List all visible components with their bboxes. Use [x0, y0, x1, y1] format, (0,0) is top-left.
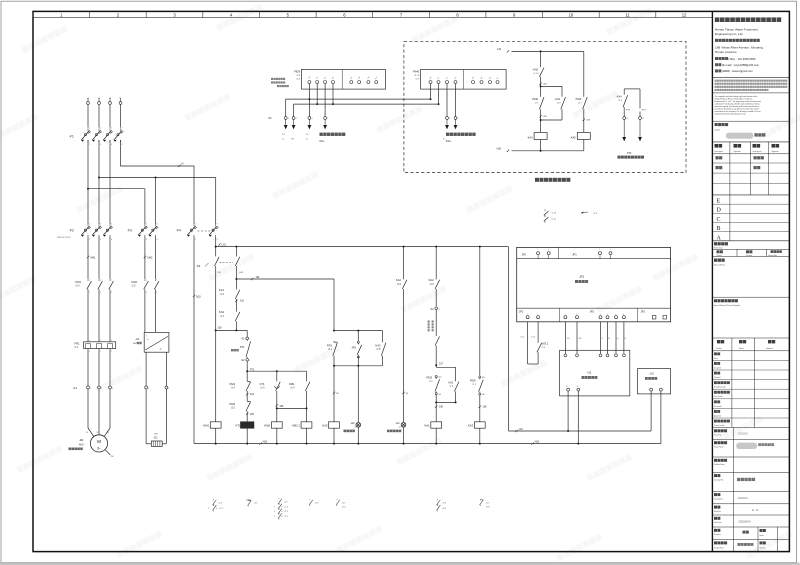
svg-text:2: 2 — [281, 506, 282, 508]
legend contact refs above P2 — [544, 210, 546, 211]
svg-text:M: M — [97, 439, 101, 444]
svg-text:FR1: FR1 — [327, 343, 333, 347]
terminal pair for G1 output — [145, 386, 148, 389]
svg-text:3~: 3~ — [97, 446, 101, 450]
auto restore signal contact — [435, 310, 437, 335]
wire N10 tail to U2 — [660, 391, 662, 444]
svg-text:KA-: KA- — [438, 393, 441, 396]
svg-text:1: 1 — [146, 279, 147, 281]
lamp H1 power indicator — [401, 423, 406, 428]
svg-text:Engineering Co.,Ltd.: Engineering Co.,Ltd. — [715, 32, 743, 36]
wire U1 supply to L10 — [567, 391, 569, 396]
svg-text:/1.6: /1.6 — [220, 293, 225, 296]
node L3 incoming terminal — [109, 102, 112, 105]
svg-text:3: 3 — [217, 223, 218, 225]
svg-text:-S2: -S2 — [241, 359, 245, 362]
wire U1 supply to N10 — [577, 391, 579, 396]
svg-text:1: 1 — [89, 223, 90, 225]
node junctions on L10 bus — [215, 246, 217, 248]
svg-text:/2.6: /2.6 — [397, 283, 402, 286]
svg-text:4: 4 — [296, 118, 297, 120]
svg-text:4: 4 — [288, 118, 289, 120]
svg-text:P629: P629 — [294, 70, 300, 73]
svg-text:Special Stamp: Special Stamp — [714, 264, 725, 267]
svg-text:A: A — [717, 235, 722, 241]
svg-text:Descript ion: Descript ion — [753, 150, 762, 153]
wire label KM1 riser — [87, 256, 89, 258]
node N label — [178, 165, 180, 167]
wire KM1 contacts to FR1 — [87, 291, 89, 342]
wire node 108 — [455, 393, 457, 403]
svg-text:Description: Description — [715, 150, 724, 153]
terminal pair level sensor 2 — [446, 117, 449, 120]
svg-text:KA-: KA- — [482, 393, 485, 396]
svg-text:D: D — [717, 208, 722, 214]
wire S3 right pole drop — [235, 247, 237, 256]
svg-text:JP2: JP2 — [522, 253, 527, 257]
svg-text:-F1: -F1 — [69, 134, 74, 138]
PLC controller P2 — [517, 247, 671, 321]
svg-text:-S3: -S3 — [196, 264, 201, 268]
svg-text:FR1: FR1 — [75, 342, 80, 346]
svg-text:6: 6 — [281, 516, 282, 518]
PLC output contact P629 /2.5 (KA2) — [479, 247, 481, 376]
svg-text:7: 7 — [327, 118, 328, 120]
svg-text:4: 4 — [157, 239, 158, 241]
svg-text:Design Phase: Design Phase — [714, 548, 724, 550]
svg-text:/1.10: /1.10 — [534, 73, 540, 75]
svg-text:-E1: -E1 — [154, 435, 159, 439]
svg-text:2: 2 — [576, 314, 577, 316]
svg-text:2: 2 — [146, 239, 147, 241]
svg-text:3: 3 — [156, 279, 157, 281]
svg-text:KM1: KM1 — [229, 382, 235, 386]
svg-text:Re-viewed: Re-viewed — [714, 406, 722, 408]
svg-text:Henan province: Henan province — [715, 50, 737, 54]
svg-text:Drawing No.: Drawing No. — [714, 499, 723, 501]
svg-text:-KA4: -KA4 — [616, 95, 622, 98]
svg-text:GN: GN — [154, 434, 158, 436]
wire node 106 — [276, 392, 278, 422]
svg-text:10: 10 — [626, 118, 628, 120]
svg-text:C: C — [717, 217, 721, 223]
terminal circle S2-2 — [246, 359, 249, 362]
wire KM1 coil feeder — [215, 330, 217, 421]
contact KA4 /1.9 PT2 output — [624, 88, 640, 90]
svg-text:3: 3 — [100, 223, 101, 225]
node 201 — [540, 78, 542, 96]
wire tap L1 to F3 left pole — [87, 188, 89, 190]
svg-text:5: 5 — [111, 279, 112, 281]
svg-text:2 - 2: 2 - 2 — [752, 508, 758, 512]
svg-text:106: 106 — [279, 405, 284, 408]
wire FR1 to terminals X1 — [87, 349, 89, 387]
lamp H2 fault indicator — [357, 366, 359, 422]
coil KT1 time relay — [246, 412, 248, 422]
svg-text:2022024: 2022024 — [738, 432, 749, 436]
svg-text:rd: rd — [354, 427, 356, 429]
svg-text:/2.5: /2.5 — [132, 285, 137, 288]
terminal PT2 outputs — [623, 109, 625, 117]
wire bus L10 — [215, 237, 217, 255]
svg-text:KM2.1: KM2.1 — [541, 343, 549, 346]
svg-text:/2.4: /2.4 — [261, 387, 266, 390]
svg-text:1: 1 — [89, 340, 90, 342]
svg-text:KM1: KM1 — [76, 280, 82, 284]
svg-text:KM2: KM2 — [132, 280, 138, 284]
svg-text:4: 4 — [281, 511, 282, 513]
relay contact KA2 /2.6 auto chain — [435, 247, 437, 279]
svg-text:/2.5: /2.5 — [231, 407, 236, 410]
svg-text:IN2+: IN2+ — [446, 140, 452, 143]
svg-text:103: 103 — [567, 338, 570, 340]
svg-text:-X2: -X2 — [267, 116, 272, 120]
wire L10 tail to HMI — [508, 247, 510, 431]
svg-text:-H2: -H2 — [350, 421, 355, 425]
wire phase L2 from F1 to F2 — [98, 140, 100, 224]
terminals U1 bottom — [567, 388, 570, 391]
svg-text:/2.4: /2.4 — [231, 387, 236, 390]
svg-text:6: 6 — [458, 118, 459, 120]
svg-text:4: 4 — [607, 314, 608, 316]
svg-text:102: 102 — [240, 300, 245, 303]
svg-text:5: 5 — [111, 128, 112, 130]
svg-text:6: 6 — [111, 292, 112, 294]
svg-text:2: 2 — [195, 239, 196, 241]
svg-text:M: M — [292, 139, 294, 141]
svg-text:1: 1 — [111, 340, 112, 342]
svg-text:JP3: JP3 — [590, 310, 595, 314]
svg-text:KM1: KM1 — [91, 257, 97, 260]
svg-text:Name: Name — [739, 348, 744, 350]
svg-text:6: 6 — [449, 118, 450, 120]
svg-text:5: 5 — [274, 516, 275, 518]
svg-text:4: 4 — [156, 292, 157, 294]
node PT1 — [246, 361, 248, 380]
interlock contact KM2 NC — [246, 392, 248, 400]
svg-text:1: 1 — [89, 128, 90, 130]
svg-text:3: 3 — [100, 279, 101, 281]
svg-text:3: 3 — [600, 314, 601, 316]
svg-text:3: 3 — [100, 128, 101, 130]
wire phases F2 to KM1 contacts — [87, 237, 89, 279]
svg-text:4: 4 — [100, 292, 101, 294]
svg-text:L: L — [567, 386, 568, 388]
shield termination PT2 — [623, 119, 625, 137]
svg-text:JP2: JP2 — [351, 345, 356, 349]
svg-text:PKM-63 T06 3P: PKM-63 T06 3P — [57, 237, 71, 239]
node L2 incoming terminal — [98, 102, 101, 105]
svg-text:KA3: KA3 — [322, 424, 328, 428]
node L1 incoming terminal — [87, 102, 90, 105]
svg-text:/2.6: /2.6 — [430, 283, 435, 286]
wire 103 to pressure switch PT1 — [246, 330, 248, 337]
svg-text:N10: N10 — [263, 440, 268, 443]
svg-text:Signature: Signature — [766, 347, 773, 350]
wire node 109 — [479, 395, 481, 422]
svg-text:/1.10: /1.10 — [520, 337, 524, 339]
svg-text:4: 4 — [100, 239, 101, 241]
svg-text:2: 2 — [610, 249, 611, 251]
svg-text:-KA5: -KA5 — [570, 136, 576, 139]
svg-text:/1.10: /1.10 — [531, 337, 535, 339]
svg-text:Signature: Signature — [772, 150, 779, 153]
svg-text:KM2: KM2 — [229, 402, 235, 406]
svg-text:JP2: JP2 — [519, 310, 524, 314]
svg-text:P640: P640 — [576, 98, 582, 101]
svg-text:W1: W1 — [107, 432, 110, 434]
svg-text:L3: L3 — [109, 98, 111, 100]
relay contact KA2 /2.6 for lamp H1 — [403, 247, 405, 279]
wire X1 to motor M1 — [87, 389, 89, 428]
svg-text:Discipline: Discipline — [714, 534, 721, 536]
svg-text:2: 2 — [89, 292, 90, 294]
svg-text:Position: Position — [716, 347, 722, 350]
svg-text:Checked: Checked — [714, 377, 720, 379]
svg-text:B: B — [717, 226, 721, 232]
svg-text:-U2: -U2 — [649, 372, 654, 376]
svg-text:V1: V1 — [96, 432, 98, 434]
shield terminations sensor 2 — [446, 119, 448, 124]
svg-text:N10: N10 — [196, 295, 201, 298]
svg-text:P629: P629 — [426, 376, 432, 379]
svg-text:101: 101 — [256, 276, 261, 279]
svg-text:1: 1 — [599, 249, 600, 251]
terminal circle S2-1 — [246, 337, 249, 340]
svg-text:(WEB) : www.hgtyscl.com: (WEB) : www.hgtyscl.com — [722, 69, 754, 73]
wire fault group bottom rail — [357, 356, 359, 366]
wire phase L1 from F1 to F2 — [87, 140, 89, 224]
svg-text:6: 6 — [623, 314, 624, 316]
wire to coil KA3 — [333, 366, 335, 422]
svg-text:N10: N10 — [535, 440, 540, 443]
svg-text:Q4B: Q4B — [239, 272, 244, 274]
coil KA5 relay — [583, 111, 585, 133]
svg-text:1: 1 — [100, 340, 101, 342]
svg-text:4: 4 — [148, 388, 149, 390]
node 202 — [561, 111, 563, 121]
svg-text:/2.4: /2.4 — [291, 387, 296, 390]
svg-text:109: 109 — [483, 406, 488, 409]
node 107 — [435, 364, 437, 366]
svg-text:/1.4: /1.4 — [220, 315, 225, 318]
svg-text:KA+: KA+ — [438, 376, 441, 379]
svg-text:Client:: Client: — [715, 128, 721, 131]
svg-text:1: 1 — [249, 339, 250, 341]
svg-text:KA1: KA1 — [219, 288, 225, 292]
svg-text:108: 108 — [439, 406, 444, 409]
svg-text:KM1: KM1 — [289, 382, 295, 386]
label level sensor tank 2 — [320, 133, 323, 136]
svg-text:2: 2 — [548, 249, 549, 251]
svg-text:-X2: -X2 — [430, 308, 434, 311]
svg-text:2: 2 — [146, 292, 147, 294]
auxiliary contact KM1 /2.4 branch — [306, 371, 308, 380]
wire PT2 right leg — [639, 89, 641, 109]
svg-text:KT1: KT1 — [260, 382, 265, 386]
svg-text:4: 4 — [217, 239, 218, 241]
svg-text:-KT1: -KT1 — [235, 424, 241, 428]
svg-text:DN: DN — [133, 343, 137, 345]
svg-text:8: 8 — [122, 144, 123, 146]
svg-text:-F3: -F3 — [127, 229, 132, 233]
motor M1 3-phase pump — [90, 435, 107, 452]
svg-text:107: 107 — [439, 363, 444, 366]
shield terminations sensor 1 — [285, 119, 287, 124]
svg-text:2: 2 — [537, 314, 538, 316]
svg-text:2: 2 — [89, 351, 90, 353]
svg-text:-KA5: -KA5 — [532, 68, 538, 71]
svg-text:L10: L10 — [519, 428, 524, 431]
svg-text:2022024: 2022024 — [738, 496, 749, 500]
wire label KM2 riser — [144, 256, 146, 258]
svg-text:PT2: PT2 — [627, 152, 632, 155]
wire incoming drops to breaker F1 — [87, 105, 89, 128]
node junction feeder to F3 right pole — [155, 177, 157, 179]
svg-text:1: 1 — [195, 223, 196, 225]
svg-text:4: 4 — [438, 309, 439, 311]
svg-text:Designed: Designed — [714, 367, 721, 369]
svg-text:JP1: JP1 — [572, 253, 577, 257]
wire P640 terminal drops — [446, 84, 448, 117]
svg-text:D+: D+ — [617, 338, 619, 340]
svg-text:(E-mail) : xxtyu1688@126.com: (E-mail) : xxtyu1688@126.com — [722, 63, 760, 67]
svg-text:/2.4: /2.4 — [76, 285, 81, 288]
wire neutral from F1 to F4 — [121, 140, 195, 224]
svg-text:(TEL) : 191 3335-0666: (TEL) : 191 3335-0666 — [729, 57, 757, 61]
svg-text:/2.8: /2.8 — [377, 348, 382, 351]
dashed box added product tank section — [404, 41, 686, 172]
svg-text:6: 6 — [111, 144, 112, 146]
svg-text:-F4: -F4 — [176, 229, 181, 233]
svg-text:L10: L10 — [222, 243, 227, 247]
svg-text:1: 1 — [274, 506, 275, 508]
svg-text:KA3: KA3 — [375, 343, 381, 347]
svg-text:Signature: Signature — [734, 150, 741, 153]
svg-text:105: 105 — [250, 413, 255, 416]
svg-text:5: 5 — [615, 314, 616, 316]
wire analog link upper — [286, 98, 431, 100]
PLC analog input P640 terminal box — [421, 69, 507, 89]
svg-text:2: 2 — [100, 351, 101, 353]
svg-text:-P640: -P640 — [413, 70, 420, 73]
wire bus N10 bottom — [194, 443, 661, 445]
svg-text:KA2: KA2 — [468, 424, 474, 428]
svg-text:P629: P629 — [470, 379, 476, 382]
wire F3 to KM2 contacts — [144, 237, 146, 279]
svg-text:4: 4 — [311, 118, 312, 120]
relay contact KA3 /1.4 — [235, 300, 237, 310]
svg-text:6: 6 — [111, 239, 112, 241]
svg-text:7: 7 — [122, 128, 123, 130]
svg-text:10: 10 — [569, 12, 574, 17]
PLC output contact P629 /2.5 (KA1) — [435, 376, 437, 378]
svg-text:IN1+: IN1+ — [320, 140, 326, 143]
svg-text:1: 1 — [565, 314, 566, 316]
legend contact references — [213, 498, 215, 501]
svg-text:Special Stamp Of Person Regist: Special Stamp Of Person Registed — [714, 304, 740, 307]
svg-text:6: 6 — [168, 388, 169, 390]
node N incoming terminal — [119, 102, 122, 105]
svg-text:-F2: -F2 — [69, 229, 74, 233]
wire node 101 — [235, 267, 237, 288]
svg-text:103: 103 — [218, 327, 223, 330]
svg-text:PT1: PT1 — [240, 346, 245, 349]
svg-text:1: 1 — [90, 388, 91, 390]
svg-text:=: = — [160, 347, 162, 351]
wire P629 terminal drops — [308, 84, 310, 117]
svg-text:1: 1 — [208, 508, 209, 510]
svg-text:-A1: -A1 — [135, 337, 140, 341]
svg-text:3: 3 — [112, 388, 113, 390]
svg-text:104: 104 — [250, 393, 255, 396]
wire analog link lower — [294, 103, 439, 105]
ground PE at motor — [105, 450, 110, 455]
relay contact KA5 /1.10 — [540, 51, 542, 66]
svg-text:1: 1 — [89, 279, 90, 281]
wire tap L2 to F3/F4 feeder — [98, 177, 100, 179]
wire node at fault group — [333, 330, 335, 332]
svg-text:U1: U1 — [86, 432, 88, 434]
contact P640 /2.7 branch 2 — [583, 51, 585, 95]
svg-text:KM2.1: KM2.1 — [292, 424, 300, 428]
svg-text:N: N — [182, 162, 184, 166]
svg-text:KA2: KA2 — [396, 278, 402, 282]
svg-text:-KA4: -KA4 — [527, 136, 533, 139]
svg-text:Version: Version — [760, 546, 766, 549]
svg-text:KA+: KA+ — [482, 376, 485, 379]
svg-text:Scale: Scale — [760, 535, 764, 537]
svg-text:L2: L2 — [98, 98, 100, 100]
label level sensor tank 1 — [446, 133, 449, 136]
power module U2 — [638, 369, 671, 394]
svg-text:L10: L10 — [497, 48, 502, 51]
wire N10 neutral drop — [193, 237, 195, 444]
svg-text:KA2: KA2 — [429, 278, 435, 282]
svg-text:11: 11 — [642, 118, 644, 120]
svg-text:2022/9/14: 2022/9/14 — [739, 520, 751, 524]
svg-text:-H1: -H1 — [396, 421, 401, 425]
svg-text:/2.10: /2.10 — [414, 75, 420, 77]
svg-text:Discipline leader: Discipline leader — [714, 387, 726, 389]
wire G1 inputs from KM2 — [144, 291, 146, 333]
svg-text:3: 3 — [146, 336, 147, 338]
svg-text:3: 3 — [216, 508, 217, 510]
svg-text:12: 12 — [682, 12, 687, 17]
svg-text:-S2: -S2 — [241, 337, 245, 340]
svg-text:1: 1 — [527, 314, 528, 316]
svg-text:KA1: KA1 — [448, 382, 453, 385]
svg-text:5: 5 — [111, 223, 112, 225]
svg-text:11: 11 — [625, 12, 630, 17]
svg-text:N10: N10 — [497, 148, 502, 151]
svg-text:3: 3 — [157, 223, 158, 225]
svg-text:KA3: KA3 — [219, 310, 225, 314]
svg-text:4kW: 4kW — [79, 443, 85, 446]
svg-text:2: 2 — [89, 144, 90, 146]
wire phase L3 from F1 to F2 — [109, 140, 111, 224]
svg-text:JP1: JP1 — [641, 310, 646, 314]
svg-text:-P2: -P2 — [579, 275, 584, 279]
svg-text:3: 3 — [274, 511, 275, 513]
svg-text:-KA4: -KA4 — [555, 98, 561, 101]
timer contact KT1 delayed — [276, 371, 278, 380]
svg-text:-KM2: -KM2 — [264, 424, 271, 428]
wire L10 feeder in dashed box — [507, 50, 509, 52]
svg-text:2: 2 — [89, 239, 90, 241]
terminals U2 bottom — [650, 388, 653, 391]
svg-text:-X1: -X1 — [73, 386, 78, 390]
